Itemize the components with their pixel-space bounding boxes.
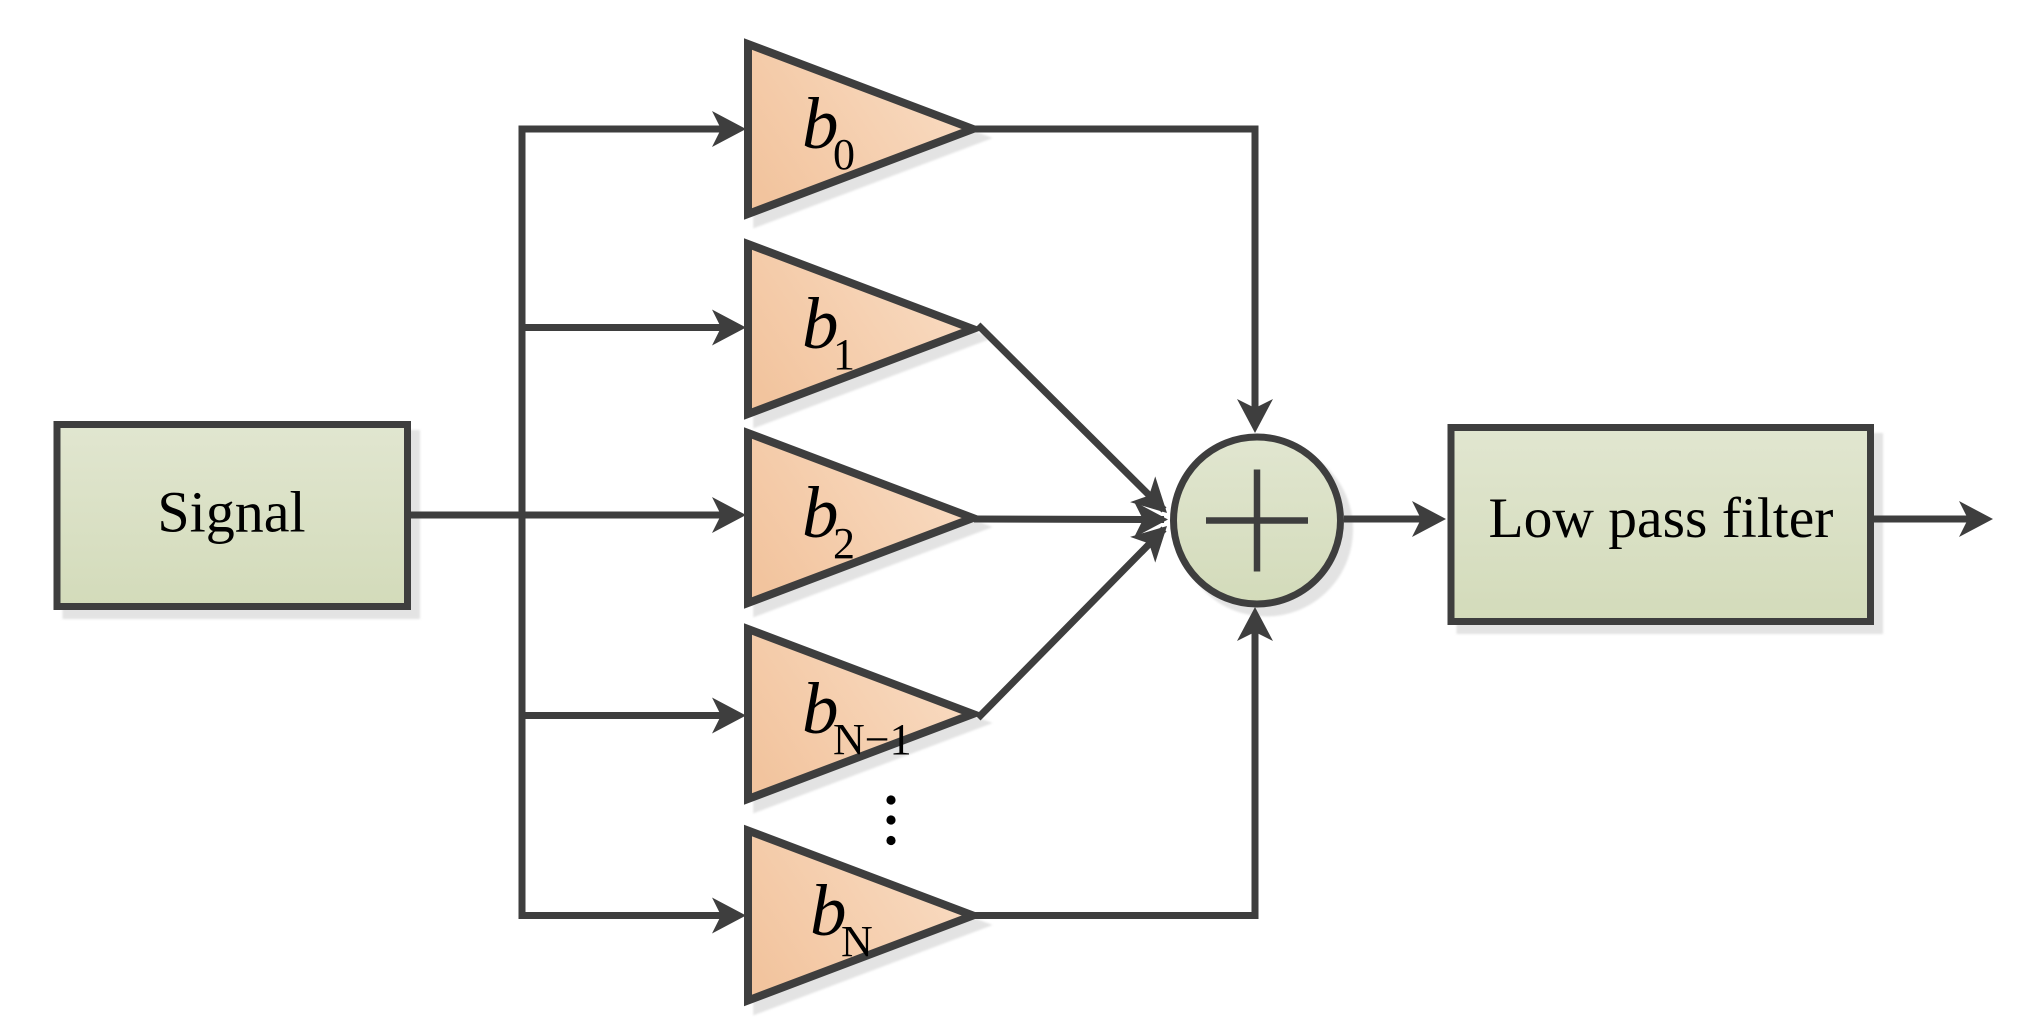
arrowhead into b1 (712, 310, 746, 346)
svg-text:0: 0 (833, 130, 855, 179)
bus vertical wire (519, 126, 526, 920)
arrowhead into summer bottom (1237, 607, 1273, 641)
svg-text:Signal: Signal (157, 480, 305, 545)
wire b2 output to summer (974, 516, 1164, 524)
summer circle (1174, 437, 1341, 604)
wire branch to b1 (519, 324, 725, 331)
svg-text:1: 1 (833, 330, 855, 379)
shadow of Low pass filter block (1460, 437, 1880, 631)
shadow of amplifier b2 (757, 442, 982, 612)
block Low pass filter (1451, 428, 1871, 622)
output wire (1874, 516, 1971, 523)
shadow of amplifier b0 (757, 53, 982, 223)
arrowhead into b2 (712, 497, 746, 533)
arrowhead into bN (712, 898, 746, 934)
amplifier bN-1 (748, 629, 973, 799)
wire b0 output to summer top (974, 129, 1255, 411)
arrowhead into b0 (712, 111, 746, 147)
amplifier b0 (748, 44, 973, 214)
shadow of summer (1183, 446, 1350, 613)
arrowhead b1 into summer (1130, 476, 1179, 526)
shadow of amplifier bN-1 (757, 638, 982, 808)
wire branch to b2 (519, 512, 725, 519)
svg-text:N: N (841, 917, 873, 966)
arrowhead bN-1 into summer (1130, 513, 1179, 563)
plus sign vertical (1254, 470, 1261, 572)
arrowhead into bN-1 (712, 698, 746, 734)
wire branch to bN (519, 912, 725, 919)
wire bN output to summer bottom (974, 629, 1255, 916)
amplifier b1 (748, 244, 973, 414)
wire summer to Low pass filter (1344, 516, 1424, 523)
output arrowhead (1959, 501, 1993, 537)
svg-text:Low pass filter: Low pass filter (1489, 487, 1834, 550)
shadow of amplifier bN (757, 840, 982, 1010)
arrowhead b2 into summer (1134, 502, 1168, 538)
ellipsis dots (886, 795, 895, 804)
wire b1 output diagonal to summer (978, 325, 1164, 510)
wire bN-1 output diagonal to summer (978, 529, 1164, 718)
amplifier bN (748, 831, 973, 1001)
arrowhead into summer top (1237, 399, 1273, 433)
arrowhead into Low pass filter (1412, 501, 1446, 537)
plus sign horizontal (1206, 517, 1308, 524)
wire branch to bN-1 (519, 712, 725, 719)
shadow of amplifier b1 (757, 253, 982, 423)
svg-text:N−1: N−1 (833, 715, 912, 764)
amplifier b2 (748, 433, 973, 603)
block Signal (57, 425, 408, 607)
wire Signal to bus (407, 512, 525, 519)
shadow of Signal block (66, 434, 417, 616)
wire branch to b0 (519, 126, 725, 133)
svg-text:2: 2 (833, 519, 855, 568)
